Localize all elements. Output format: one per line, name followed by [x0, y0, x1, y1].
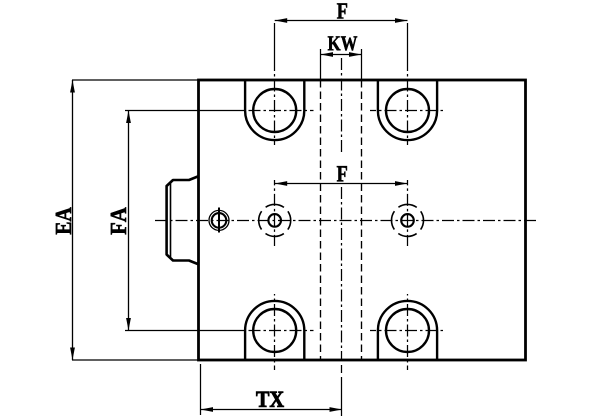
counterbore slot bottom-right: [378, 301, 437, 360]
dimension EA extension top: [72, 79, 199, 81]
port circle on tab inner: [212, 213, 227, 228]
port circle vertical line: [218, 208, 220, 233]
hidden slot line left: [320, 80, 322, 360]
horizontal centre line top-left hole: [245, 110, 314, 112]
vertical centre line right column middle: [407, 180, 409, 246]
horizontal centre line top-right hole: [370, 110, 444, 112]
vertical centre line left column middle: [274, 180, 276, 246]
vertical centre line left column top solid: [274, 23, 276, 71]
vertical centre line right column bottom: [407, 294, 409, 370]
dimension EA extension bottom: [72, 359, 199, 361]
dimension F middle right arrow: [395, 181, 408, 186]
dimension F top text: [337, 3, 347, 18]
mounting hole top-left: [253, 89, 296, 132]
vertical centre line right column top solid: [407, 23, 409, 71]
block outline: [199, 80, 526, 360]
dimension EA line: [72, 80, 74, 360]
left tab inner edge: [170, 184, 172, 258]
mounting hole bottom-right: [386, 309, 429, 352]
hole middle-right inner: [401, 214, 414, 227]
dimension EA bottom arrow: [70, 348, 75, 361]
dimension KW text: [328, 36, 357, 50]
counterbore slot top-right: [378, 80, 437, 140]
dimension FA top arrow: [126, 111, 131, 124]
dimension TX line: [201, 409, 343, 411]
dimension F top line: [275, 20, 408, 22]
dimension F top right arrow: [395, 18, 408, 23]
dimension KW extension left: [320, 49, 322, 80]
dimension TX extension right: [341, 377, 343, 416]
vertical centre line of block upper: [341, 58, 343, 152]
hidden slot line right: [361, 80, 363, 360]
horizontal centre line bottom-left hole: [245, 330, 314, 332]
dimension EA top arrow: [70, 80, 75, 93]
dimension F middle left arrow: [275, 181, 288, 186]
dimension TX left arrow: [201, 407, 214, 412]
dimension FA line: [128, 111, 130, 331]
vertical centre line of block lower: [341, 187, 343, 360]
hidden hole middle-left outer: [259, 204, 291, 236]
counterbore slot top-left: [245, 80, 304, 140]
horizontal centre line bottom-right hole: [370, 330, 444, 332]
dimension F middle text: [337, 166, 347, 181]
vertical centre line left column top: [274, 74, 276, 145]
dimension KW left arrow: [321, 52, 334, 57]
horizontal centre line middle: [155, 220, 537, 222]
dimension F top left arrow: [275, 18, 288, 23]
dimension KW right arrow: [349, 52, 362, 57]
centre line stub below block: [341, 365, 343, 373]
dimension KW line: [321, 54, 362, 56]
vertical centre line right column top: [407, 74, 409, 145]
dimension TX right arrow: [330, 407, 343, 412]
dimension FA bottom arrow: [126, 318, 131, 331]
mounting hole bottom-left: [253, 309, 296, 352]
counterbore slot bottom-left: [245, 301, 304, 360]
hidden hole middle-right outer: [392, 204, 424, 236]
mounting hole top-right: [386, 89, 429, 132]
hole middle-left inner: [268, 214, 281, 227]
dimension F middle line: [275, 183, 408, 185]
port circle on tab outer: [209, 210, 229, 230]
dimension FA text: [111, 207, 126, 234]
vertical centre line left column bottom: [274, 294, 276, 370]
dimension KW extension right: [361, 49, 363, 80]
dimension EA text: [56, 207, 71, 234]
horizontal centre line bottom row solid part: [125, 330, 245, 332]
dimension TX text: [256, 392, 284, 407]
horizontal centre line top row solid part: [125, 110, 245, 112]
left tab profile: [167, 176, 199, 265]
dimension TX extension left: [200, 364, 202, 415]
